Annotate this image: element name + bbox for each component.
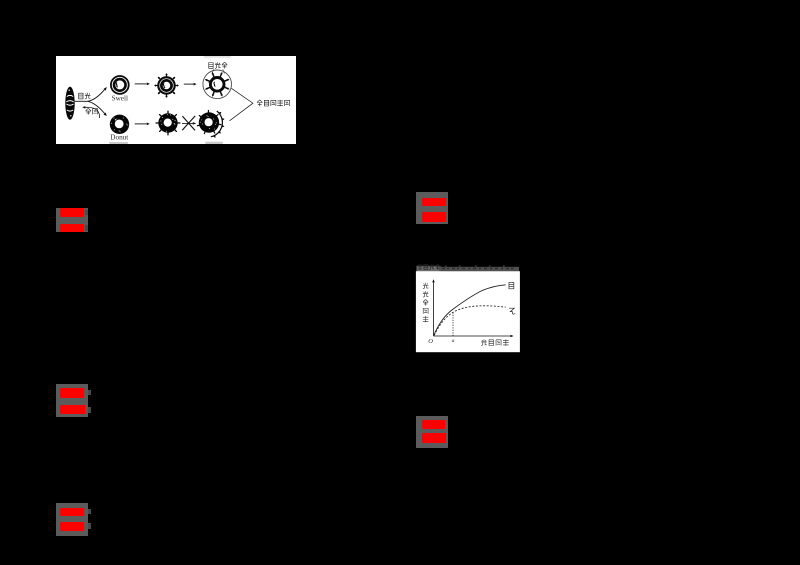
arrow 3 (Donut to spiked donut) <box>135 123 147 125</box>
faint edge smudges <box>109 142 128 144</box>
spiked ring (top middle) <box>154 73 178 97</box>
spiked donut (bottom middle) <box>156 111 180 135</box>
label: laizi neizhiwang (from ER) <box>257 100 289 106</box>
svg-text:O: O <box>428 338 433 345</box>
y axis <box>433 282 435 336</box>
x label: light intensity <box>481 339 509 345</box>
svg-text:Swell: Swell <box>112 94 128 102</box>
figure 2: net photosynthesis chart (white box with gray selection band) <box>415 263 521 353</box>
label: huifu (recovery) <box>86 108 98 114</box>
label: zhongzhang (swelling) <box>79 93 91 99</box>
answer block R2 <box>416 416 448 448</box>
bottom branch arrow to Donut <box>88 101 105 113</box>
svg-text:Donut: Donut <box>110 133 128 141</box>
leader ticks from label <box>212 69 224 73</box>
mitochondrion (left oval) <box>65 87 74 120</box>
answer block R1 <box>416 192 448 224</box>
spiked donut with ER crescent (bottom right) <box>197 111 220 134</box>
svg-text:a: a <box>452 338 455 344</box>
return arrow (recovery) <box>84 107 99 118</box>
Donut ring (solid) <box>110 115 129 134</box>
answer block L1 (red text on gray highlight) <box>56 208 88 233</box>
Swell ring <box>111 76 129 94</box>
answer block L2 <box>56 384 88 417</box>
dark text marks on band <box>417 264 440 270</box>
figure 1: mitochondria autophagy diagram (white box) <box>56 56 296 144</box>
label jia <box>509 282 514 288</box>
curve yi (dashed) <box>434 306 505 336</box>
crossed-out arrow (X) <box>182 122 194 124</box>
crescent membrane arc <box>211 111 223 137</box>
arrow 2 (to autophagosome) <box>184 83 194 85</box>
arrow 1 (Swell to spiked ring) <box>135 83 147 85</box>
label: zishiti (autophagosome) <box>209 62 228 68</box>
dashed vertical at a <box>452 313 454 337</box>
answer block L3 <box>56 503 88 536</box>
branch stem wire <box>75 100 88 102</box>
autophagosome (large double-membrane circle) <box>203 70 232 99</box>
leader lines to ER label <box>230 88 253 121</box>
curve jia (solid) <box>434 285 506 336</box>
white chart box <box>416 271 520 352</box>
x axis <box>434 335 511 337</box>
gray selection band above chart <box>417 266 441 272</box>
label yi <box>509 308 515 314</box>
top branch arrow to Swell <box>88 89 105 101</box>
y label: net photosynthesis rate (vertical) <box>423 283 428 323</box>
